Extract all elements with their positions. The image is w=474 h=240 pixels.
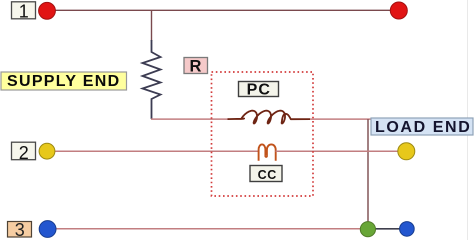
wire: junction to load terminal 3 (dark)	[368, 228, 407, 230]
wire: resistor bottom to PC coil	[151, 118, 229, 120]
label LOAD END	[371, 118, 473, 136]
svg-text:2: 2	[19, 143, 29, 163]
node: load terminal 1 (red)	[390, 2, 407, 19]
node: supply terminal 1 (red)	[39, 2, 56, 19]
svg-text:1: 1	[19, 1, 29, 21]
wire: line 1 top horizontal	[47, 9, 399, 11]
svg-text:CC: CC	[258, 168, 277, 182]
svg-text:SUPPLY END: SUPPLY END	[7, 73, 120, 90]
wire: line 2 left of CC coil	[47, 150, 259, 152]
pressure coil PC (inductor)	[228, 111, 311, 124]
wire: line 3 bottom	[48, 228, 369, 230]
node: load terminal 3 (blue)	[400, 222, 415, 237]
node: supply terminal 2 (yellow)	[39, 143, 55, 159]
wire: PC coil to load corner	[310, 118, 371, 120]
node: supply terminal 3 (blue)	[39, 221, 56, 238]
wire: drop from line 1 to resistor R	[151, 10, 153, 41]
current coil CC	[259, 144, 276, 160]
label CC (current coil)	[250, 166, 282, 183]
terminal label 1	[12, 1, 36, 21]
wire: line 2 right of CC coil to load terminal	[276, 150, 407, 152]
node: junction on line 3 (green)	[360, 222, 375, 237]
svg-text:R: R	[189, 58, 201, 76]
label SUPPLY END	[1, 72, 127, 90]
svg-text:LOAD END: LOAD END	[375, 119, 471, 136]
faint window edge line	[467, 0, 469, 240]
label R (resistor)	[184, 58, 208, 76]
resistor R	[143, 40, 161, 119]
svg-text:3: 3	[15, 220, 25, 240]
wire: vertical down to bottom line junction	[367, 119, 369, 229]
label PC (pressure coil)	[239, 82, 279, 99]
terminal label 3	[8, 220, 32, 240]
node: load terminal 2 (yellow)	[398, 143, 415, 160]
svg-text:PC: PC	[247, 82, 271, 99]
terminal label 2	[12, 142, 36, 163]
wattmeter dotted enclosure	[212, 72, 314, 196]
